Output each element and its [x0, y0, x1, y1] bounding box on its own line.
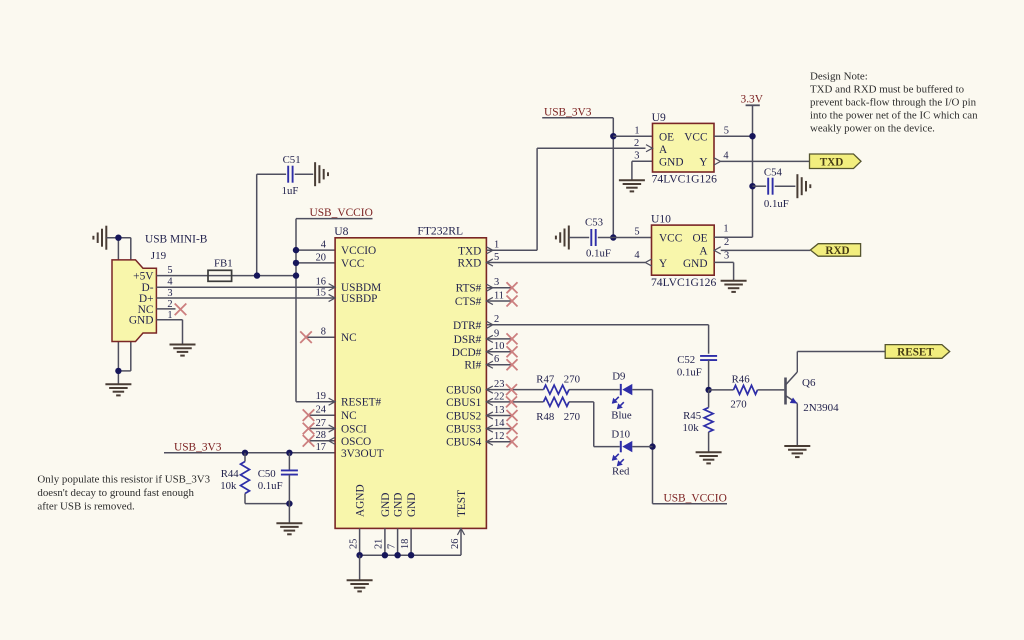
svg-text:2: 2: [167, 299, 172, 310]
svg-text:AGND: AGND: [355, 484, 367, 517]
svg-text:1uF: 1uF: [282, 185, 299, 197]
svg-text:A: A: [699, 245, 708, 257]
svg-text:TXD: TXD: [820, 156, 844, 168]
svg-text:2N3904: 2N3904: [803, 402, 839, 414]
svg-text:weakly power on the device.: weakly power on the device.: [810, 123, 935, 135]
svg-text:RI#: RI#: [464, 360, 481, 372]
svg-text:15: 15: [316, 287, 326, 298]
svg-text:24: 24: [316, 405, 327, 416]
svg-text:RESET#: RESET#: [341, 397, 382, 409]
svg-text:20: 20: [316, 252, 326, 263]
svg-text:FB1: FB1: [214, 258, 233, 270]
svg-text:USB_3V3: USB_3V3: [544, 106, 592, 118]
svg-text:14: 14: [494, 418, 505, 429]
svg-text:Y: Y: [659, 258, 667, 270]
svg-text:DCD#: DCD#: [452, 347, 482, 359]
svg-text:DSR#: DSR#: [454, 334, 482, 346]
svg-text:0.1uF: 0.1uF: [258, 480, 283, 492]
svg-text:C54: C54: [764, 167, 783, 179]
svg-text:A: A: [659, 144, 668, 156]
svg-text:after USB is removed.: after USB is removed.: [37, 501, 134, 513]
svg-text:270: 270: [564, 411, 580, 423]
svg-text:0.1uF: 0.1uF: [764, 198, 789, 210]
svg-text:1: 1: [494, 240, 499, 251]
svg-text:C51: C51: [283, 154, 301, 166]
svg-text:VCCIO: VCCIO: [341, 245, 376, 257]
svg-text:RTS#: RTS#: [456, 283, 482, 295]
svg-text:doesn't decay to ground fast e: doesn't decay to ground fast enough: [37, 487, 194, 499]
svg-text:Blue: Blue: [611, 410, 632, 422]
svg-text:GND: GND: [393, 493, 405, 517]
svg-text:19: 19: [316, 391, 326, 402]
svg-text:CBUS1: CBUS1: [446, 397, 481, 409]
svg-text:OSCI: OSCI: [341, 424, 367, 436]
svg-text:TXD: TXD: [458, 245, 481, 257]
svg-text:GND: GND: [683, 258, 707, 270]
svg-text:Red: Red: [612, 465, 630, 477]
svg-text:3: 3: [724, 250, 729, 261]
svg-text:OE: OE: [692, 232, 707, 244]
svg-text:C52: C52: [677, 354, 695, 366]
svg-text:5: 5: [724, 126, 729, 137]
svg-text:U10: U10: [651, 212, 671, 225]
svg-text:74LVC1G126: 74LVC1G126: [652, 173, 717, 186]
svg-text:10: 10: [494, 341, 504, 352]
svg-text:U8: U8: [334, 225, 348, 238]
svg-text:4: 4: [634, 250, 640, 261]
svg-text:RESET: RESET: [897, 346, 934, 358]
svg-text:74LVC1G126: 74LVC1G126: [651, 276, 716, 289]
svg-text:U9: U9: [652, 111, 666, 124]
svg-text:USBDP: USBDP: [341, 293, 377, 305]
svg-text:TEST: TEST: [456, 490, 468, 517]
svg-text:CTS#: CTS#: [455, 296, 482, 308]
svg-text:USB_3V3: USB_3V3: [174, 441, 222, 453]
svg-text:C50: C50: [258, 468, 276, 480]
svg-text:VCC: VCC: [659, 232, 682, 244]
svg-text:0.1uF: 0.1uF: [677, 367, 702, 379]
svg-text:USB MINI-B: USB MINI-B: [145, 233, 208, 245]
svg-text:R46: R46: [732, 373, 751, 385]
svg-text:RXD: RXD: [825, 245, 849, 257]
svg-text:Design Note:: Design Note:: [810, 71, 868, 83]
svg-text:3: 3: [634, 151, 639, 162]
svg-text:DTR#: DTR#: [453, 320, 482, 332]
svg-text:1: 1: [167, 310, 172, 321]
svg-text:TXD and RXD must be buffered t: TXD and RXD must be buffered to: [810, 84, 965, 96]
svg-text:C53: C53: [585, 216, 603, 228]
svg-text:GND: GND: [380, 493, 392, 517]
svg-text:11: 11: [494, 290, 504, 301]
svg-text:28: 28: [316, 430, 326, 441]
svg-text:GND: GND: [659, 157, 683, 169]
svg-text:prevent back-flow through the: prevent back-flow through the I/O pin: [810, 97, 977, 109]
svg-text:13: 13: [494, 405, 504, 416]
svg-text:FT232RL: FT232RL: [417, 225, 463, 238]
svg-text:J19: J19: [151, 250, 167, 262]
svg-text:Y: Y: [699, 157, 707, 169]
svg-text:3V3OUT: 3V3OUT: [341, 448, 384, 460]
svg-text:9: 9: [494, 328, 499, 339]
svg-text:22: 22: [494, 391, 504, 402]
svg-text:3: 3: [494, 277, 499, 288]
svg-text:0.1uF: 0.1uF: [586, 248, 611, 260]
svg-text:USB_VCCIO: USB_VCCIO: [310, 207, 373, 219]
svg-text:NC: NC: [341, 332, 357, 344]
svg-text:Q6: Q6: [802, 377, 816, 389]
svg-text:5: 5: [494, 252, 499, 263]
svg-text:VCC: VCC: [341, 258, 364, 270]
svg-text:into the power net of the IC w: into the power net of the IC which can: [810, 110, 978, 122]
svg-text:R48: R48: [536, 411, 554, 423]
svg-text:23: 23: [494, 379, 504, 390]
svg-text:27: 27: [316, 418, 326, 429]
svg-text:1: 1: [723, 223, 728, 234]
svg-text:5: 5: [634, 227, 639, 238]
svg-text:10k: 10k: [220, 480, 237, 492]
svg-text:R44: R44: [221, 468, 240, 480]
svg-text:4: 4: [167, 277, 173, 288]
svg-text:+5V: +5V: [133, 270, 154, 282]
svg-text:D9: D9: [612, 371, 625, 383]
svg-text:Only populate this resistor if: Only populate this resistor if USB_3V3: [37, 474, 210, 486]
svg-text:26: 26: [450, 539, 461, 549]
svg-text:3: 3: [167, 288, 172, 299]
svg-text:4: 4: [723, 151, 729, 162]
svg-text:7: 7: [386, 544, 397, 549]
svg-text:USB_VCCIO: USB_VCCIO: [664, 492, 727, 504]
svg-text:12: 12: [494, 431, 504, 442]
svg-text:GND: GND: [129, 315, 154, 327]
svg-text:5: 5: [167, 265, 172, 276]
svg-text:R47: R47: [536, 374, 555, 386]
svg-text:CBUS3: CBUS3: [446, 424, 482, 436]
svg-text:3.3V: 3.3V: [741, 94, 764, 106]
svg-text:2: 2: [634, 138, 639, 149]
svg-text:R45: R45: [683, 410, 701, 422]
svg-text:8: 8: [321, 327, 326, 338]
svg-text:18: 18: [400, 539, 411, 549]
svg-text:D10: D10: [611, 428, 630, 440]
svg-text:6: 6: [494, 354, 499, 365]
svg-text:NC: NC: [341, 410, 357, 422]
svg-text:25: 25: [348, 539, 359, 549]
svg-text:270: 270: [730, 399, 746, 411]
svg-text:RXD: RXD: [457, 258, 481, 270]
svg-text:270: 270: [564, 374, 580, 386]
svg-text:CBUS0: CBUS0: [446, 385, 482, 397]
svg-text:1: 1: [634, 126, 639, 137]
svg-text:16: 16: [316, 277, 326, 288]
svg-text:2: 2: [724, 237, 729, 248]
svg-text:CBUS2: CBUS2: [446, 411, 482, 423]
svg-text:OSCO: OSCO: [341, 436, 371, 448]
svg-text:17: 17: [316, 442, 326, 453]
svg-text:2: 2: [494, 314, 499, 325]
svg-text:VCC: VCC: [684, 131, 707, 143]
svg-text:10k: 10k: [682, 422, 699, 434]
svg-text:4: 4: [321, 240, 327, 251]
svg-text:GND: GND: [406, 493, 418, 517]
svg-text:OE: OE: [659, 131, 674, 143]
svg-text:21: 21: [374, 539, 385, 549]
svg-text:CBUS4: CBUS4: [446, 437, 482, 449]
